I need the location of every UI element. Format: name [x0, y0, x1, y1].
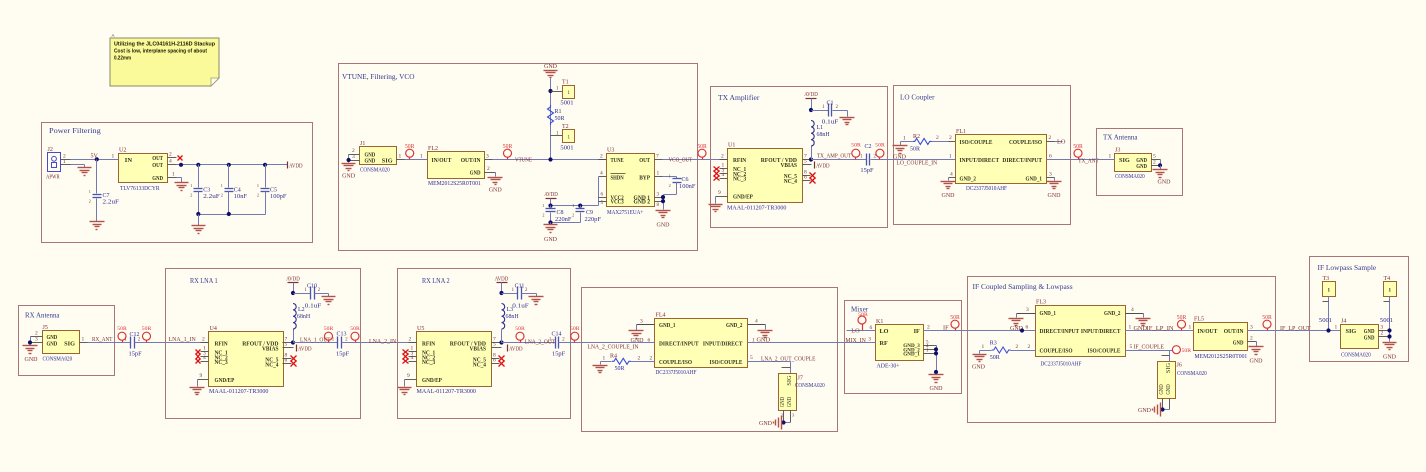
- svg-text:LO_COUPLE_IN: LO_COUPLE_IN: [896, 159, 937, 166]
- svg-text:LNA_2_IN: LNA_2_IN: [369, 338, 397, 345]
- svg-text:50R: 50R: [858, 312, 868, 318]
- svg-text:FL4: FL4: [656, 313, 666, 319]
- svg-text:GND: GND: [1159, 384, 1165, 395]
- svg-text:5001: 5001: [1380, 318, 1393, 324]
- svg-text:R2: R2: [913, 134, 920, 140]
- svg-text:CONSMA020: CONSMA020: [1341, 353, 1371, 359]
- svg-text:C8: C8: [557, 210, 564, 216]
- svg-text:50R: 50R: [350, 326, 360, 332]
- svg-text:50R: 50R: [1177, 315, 1187, 321]
- svg-text:GND: GND: [942, 193, 956, 199]
- svg-text:CONSMA020: CONSMA020: [43, 357, 73, 363]
- svg-text:GND_1: GND_1: [1026, 175, 1043, 182]
- svg-text:U2: U2: [119, 148, 126, 154]
- svg-text:2: 2: [1250, 336, 1253, 342]
- svg-text:NC_4: NC_4: [784, 178, 797, 185]
- svg-text:APWR: APWR: [46, 175, 60, 181]
- svg-text:IF Coupled Sampling & Lowpass: IF Coupled Sampling & Lowpass: [973, 282, 1073, 291]
- svg-text:C4: C4: [234, 188, 241, 194]
- svg-text:GND: GND: [972, 364, 986, 370]
- svg-text:RFIN: RFIN: [733, 157, 747, 164]
- svg-text:3: 3: [1049, 172, 1052, 178]
- svg-text:U4: U4: [210, 326, 217, 332]
- svg-text:MEM2012S25R0T001: MEM2012S25R0T001: [428, 181, 481, 187]
- svg-text:MAX2751EUA+: MAX2751EUA+: [607, 210, 644, 216]
- svg-text:GND: GND: [544, 64, 558, 70]
- svg-text:50R: 50R: [324, 326, 334, 332]
- svg-text:GND_2: GND_2: [1104, 310, 1121, 317]
- svg-text:RX Antenna: RX Antenna: [25, 311, 60, 320]
- svg-text:1: 1: [1109, 154, 1112, 160]
- svg-text:TLV76133DCYR: TLV76133DCYR: [120, 185, 160, 192]
- svg-text:GND: GND: [342, 174, 356, 180]
- svg-text:GND: GND: [1364, 334, 1375, 341]
- svg-text:3: 3: [1026, 307, 1029, 313]
- svg-text:VTUNE, Filtering, VCO: VTUNE, Filtering, VCO: [342, 72, 415, 81]
- svg-text:3: 3: [868, 336, 871, 342]
- svg-text:CONSMA020: CONSMA020: [1177, 371, 1207, 377]
- svg-text:CONSMA020: CONSMA020: [360, 168, 390, 174]
- svg-text:2: 2: [1153, 159, 1156, 165]
- svg-text:FL5: FL5: [1194, 317, 1204, 323]
- svg-text:50R: 50R: [142, 326, 152, 332]
- svg-text:L2: L2: [298, 307, 305, 313]
- svg-text:INPUT/DIRECT: INPUT/DIRECT: [703, 340, 743, 347]
- svg-text:LO: LO: [851, 327, 860, 334]
- svg-text:MAAL-011207-TR3000: MAAL-011207-TR3000: [209, 389, 268, 395]
- svg-text:1: 1: [190, 183, 192, 188]
- svg-text:GND: GND: [1136, 163, 1147, 170]
- svg-text:AVDD: AVDD: [544, 191, 558, 198]
- svg-text:4: 4: [203, 355, 206, 361]
- svg-text:50R: 50R: [1073, 144, 1083, 150]
- svg-text:DIRECT/INPUT: DIRECT/INPUT: [1040, 328, 1080, 335]
- svg-text:MAAL-011207-TR3000: MAAL-011207-TR3000: [727, 206, 786, 212]
- svg-text:INPUT/DIRECT: INPUT/DIRECT: [960, 157, 1000, 164]
- svg-text:J7: J7: [798, 376, 803, 382]
- svg-text:GND/EP: GND/EP: [215, 377, 235, 384]
- svg-text:IF_LP_OUT: IF_LP_OUT: [1280, 325, 1311, 332]
- svg-text:50R: 50R: [615, 366, 625, 372]
- svg-text:1: 1: [903, 135, 906, 141]
- svg-text:U5: U5: [417, 326, 424, 332]
- svg-text:ADE-30+: ADE-30+: [877, 364, 901, 370]
- svg-text:R4: R4: [610, 353, 617, 359]
- svg-text:LO: LO: [880, 328, 889, 335]
- svg-text:2: 2: [600, 154, 603, 160]
- svg-text:R1: R1: [555, 109, 562, 115]
- svg-text:NC_4: NC_4: [473, 361, 486, 368]
- svg-text:5001: 5001: [560, 101, 573, 107]
- svg-text:SIG: SIG: [382, 158, 393, 165]
- svg-text:2: 2: [202, 337, 205, 343]
- svg-text:L1: L1: [817, 125, 824, 131]
- svg-text:5: 5: [750, 355, 753, 361]
- svg-text:50R: 50R: [570, 326, 580, 332]
- svg-text:10nF: 10nF: [234, 194, 248, 200]
- svg-text:IN: IN: [125, 157, 133, 164]
- svg-text:15pF: 15pF: [552, 352, 566, 358]
- svg-text:1: 1: [257, 183, 259, 188]
- svg-text:1: 1: [420, 154, 423, 160]
- svg-text:INPUT/DIRECT: INPUT/DIRECT: [1081, 328, 1121, 335]
- svg-text:6: 6: [1026, 325, 1029, 331]
- svg-text:50R: 50R: [117, 326, 127, 332]
- svg-text:4: 4: [950, 172, 953, 178]
- svg-text:2: 2: [169, 152, 172, 158]
- svg-text:3: 3: [35, 337, 38, 343]
- svg-text:3: 3: [1250, 325, 1253, 331]
- svg-text:68nH: 68nH: [506, 314, 520, 320]
- svg-text:AVDD: AVDD: [495, 276, 509, 283]
- svg-text:LO: LO: [1057, 139, 1066, 146]
- svg-text:RX LNA 1: RX LNA 1: [190, 276, 218, 285]
- svg-text:1: 1: [657, 171, 660, 177]
- svg-text:100pF: 100pF: [270, 194, 287, 200]
- svg-text:3: 3: [352, 154, 355, 160]
- svg-text:IF Lowpass Sample: IF Lowpass Sample: [1318, 263, 1377, 272]
- svg-text:9: 9: [718, 190, 721, 196]
- svg-text:1: 1: [1388, 288, 1391, 294]
- svg-text:1: 1: [399, 154, 402, 160]
- svg-text:COUPLE/ISO: COUPLE/ISO: [1040, 348, 1073, 355]
- svg-text:2: 2: [721, 154, 724, 160]
- svg-text:GND: GND: [1048, 193, 1062, 199]
- svg-text:GND: GND: [470, 169, 481, 176]
- svg-text:SIG: SIG: [787, 375, 793, 386]
- svg-text:6: 6: [285, 358, 288, 364]
- svg-text:C6: C6: [682, 177, 689, 183]
- svg-text:1: 1: [82, 337, 85, 343]
- svg-text:MAAL-011207-TR3000: MAAL-011207-TR3000: [417, 389, 476, 395]
- svg-text:0.1uF: 0.1uF: [822, 120, 839, 126]
- svg-text:5: 5: [804, 159, 807, 165]
- svg-text:LNA_1_IN: LNA_1_IN: [169, 336, 197, 343]
- svg-text:GND: GND: [1134, 325, 1148, 332]
- svg-text:2: 2: [89, 198, 91, 203]
- svg-text:IF: IF: [943, 324, 949, 331]
- svg-text:SIG: SIG: [1166, 362, 1172, 373]
- svg-text:50R: 50R: [950, 315, 960, 321]
- svg-text:U3: U3: [607, 148, 614, 154]
- svg-text:FL3: FL3: [1036, 300, 1046, 306]
- svg-text:GND: GND: [47, 340, 58, 347]
- svg-text:2: 2: [1016, 344, 1019, 350]
- svg-text:J2: J2: [48, 147, 53, 153]
- svg-text:C5: C5: [270, 188, 277, 194]
- svg-text:NC_3: NC_3: [733, 176, 746, 183]
- svg-text:DC2337J5010AHF: DC2337J5010AHF: [1041, 362, 1083, 368]
- svg-text:VCO_OUT: VCO_OUT: [669, 157, 693, 164]
- svg-text:1: 1: [982, 344, 985, 350]
- svg-text:6: 6: [493, 358, 496, 364]
- svg-text:T2: T2: [562, 124, 569, 130]
- svg-text:GND: GND: [1383, 355, 1397, 361]
- svg-text:GND: GND: [757, 337, 771, 344]
- svg-text:5001: 5001: [1319, 318, 1332, 324]
- svg-text:NC_3: NC_3: [422, 359, 435, 366]
- svg-text:GND: GND: [1233, 340, 1244, 347]
- svg-text:COUPLE/ISO: COUPLE/ISO: [1009, 139, 1042, 146]
- svg-text:IN/OUT: IN/OUT: [1198, 328, 1219, 335]
- svg-text:100nF: 100nF: [679, 184, 696, 190]
- svg-text:GND: GND: [1158, 180, 1172, 186]
- svg-text:J6: J6: [1177, 363, 1182, 369]
- svg-text:J5: J5: [43, 325, 48, 331]
- svg-text:1: 1: [1189, 325, 1192, 331]
- svg-text:RFIN: RFIN: [422, 340, 436, 347]
- svg-text:R3: R3: [990, 340, 997, 346]
- svg-text:50R: 50R: [697, 144, 707, 150]
- svg-text:5001: 5001: [560, 146, 573, 152]
- svg-text:15pF: 15pF: [860, 168, 874, 174]
- svg-text:TX_ANT: TX_ANT: [1078, 157, 1099, 164]
- svg-text:C10: C10: [307, 284, 317, 290]
- svg-text:GND: GND: [1166, 384, 1172, 395]
- svg-text:TUNE: TUNE: [611, 157, 624, 164]
- svg-text:MIX_IN: MIX_IN: [845, 337, 866, 344]
- svg-text:DC2337J5010AHF: DC2337J5010AHF: [656, 370, 698, 376]
- svg-text:DIRECT/INPUT: DIRECT/INPUT: [659, 340, 699, 347]
- svg-text:GND: GND: [930, 386, 944, 392]
- svg-text:ISO/COUPLE: ISO/COUPLE: [710, 359, 743, 366]
- svg-text:6: 6: [648, 338, 651, 344]
- svg-text:J4: J4: [1341, 319, 1346, 325]
- svg-text:AVDD: AVDD: [816, 162, 830, 169]
- svg-text:Cost is low, interplane spacin: Cost is low, interplane spacing of about: [114, 49, 207, 55]
- svg-text:C1: C1: [826, 101, 833, 107]
- svg-text:Power Filtering: Power Filtering: [49, 126, 101, 135]
- svg-text:50R: 50R: [1182, 348, 1192, 354]
- svg-text:50R: 50R: [1262, 315, 1272, 321]
- svg-text:2: 2: [487, 166, 490, 172]
- svg-text:IF: IF: [914, 328, 920, 335]
- svg-text:4: 4: [1131, 307, 1134, 313]
- svg-text:2: 2: [650, 355, 653, 361]
- svg-text:C2: C2: [864, 144, 871, 150]
- svg-text:0.22mm: 0.22mm: [114, 56, 131, 62]
- svg-text:VBIAS: VBIAS: [781, 162, 798, 169]
- svg-text:T1: T1: [562, 80, 569, 86]
- svg-text:C14: C14: [552, 332, 562, 338]
- svg-text:VBIAS: VBIAS: [262, 346, 279, 353]
- svg-text:68nH: 68nH: [297, 314, 311, 320]
- svg-text:GND: GND: [152, 175, 163, 182]
- svg-text:OUT: OUT: [152, 155, 163, 162]
- svg-text:LNA_2_OUT_COUPLE: LNA_2_OUT_COUPLE: [761, 356, 816, 363]
- svg-text:50R: 50R: [405, 144, 415, 150]
- svg-text:1: 1: [752, 338, 755, 344]
- svg-text:SIG: SIG: [1119, 157, 1130, 164]
- svg-text:2: 2: [409, 337, 412, 343]
- svg-text:MEM2012S25R0T001: MEM2012S25R0T001: [1195, 354, 1248, 360]
- svg-text:FL1: FL1: [956, 129, 966, 135]
- svg-text:1: 1: [572, 203, 574, 208]
- svg-text:2: 2: [936, 135, 939, 141]
- svg-text:C9: C9: [586, 210, 593, 216]
- svg-text:2: 2: [638, 355, 641, 361]
- svg-text:4: 4: [755, 318, 758, 324]
- svg-text:GND_1: GND_1: [1040, 310, 1057, 317]
- svg-text:GND: GND: [1138, 408, 1152, 414]
- svg-text:2.2uF: 2.2uF: [103, 200, 120, 206]
- svg-text:IF_LP_IN: IF_LP_IN: [1147, 325, 1175, 332]
- svg-text:4: 4: [600, 171, 603, 177]
- svg-text:2: 2: [190, 192, 192, 197]
- svg-text:VBIAS: VBIAS: [470, 346, 487, 353]
- svg-text:3: 3: [486, 154, 489, 160]
- svg-text:9: 9: [200, 373, 203, 379]
- svg-text:6: 6: [1049, 154, 1052, 160]
- svg-text:A: A: [112, 33, 115, 38]
- svg-text:LO Coupler: LO Coupler: [900, 93, 935, 102]
- svg-text:GND: GND: [657, 223, 671, 229]
- svg-text:220nF: 220nF: [555, 217, 572, 223]
- svg-text:TX Amplifier: TX Amplifier: [718, 93, 760, 102]
- svg-text:GND 2: GND 2: [634, 200, 651, 206]
- svg-text:1: 1: [949, 154, 952, 160]
- svg-text:GND: GND: [365, 158, 376, 165]
- svg-text:ISO/COUPLE: ISO/COUPLE: [960, 139, 993, 146]
- svg-text:TX_AMP_OUT: TX_AMP_OUT: [817, 152, 851, 159]
- svg-text:GND: GND: [1250, 359, 1264, 365]
- svg-text:2.2uF: 2.2uF: [203, 194, 220, 200]
- svg-text:T3: T3: [1323, 276, 1330, 282]
- svg-text:2: 2: [257, 192, 259, 197]
- svg-text:VCC3: VCC3: [611, 200, 624, 206]
- svg-text:SIG: SIG: [64, 340, 75, 347]
- svg-text:OUT/IN: OUT/IN: [461, 157, 481, 164]
- svg-text:1: 1: [1129, 325, 1132, 331]
- svg-text:C3: C3: [203, 188, 210, 194]
- svg-text:3: 3: [640, 318, 643, 324]
- svg-text:T4: T4: [1384, 276, 1391, 282]
- svg-text:220pF: 220pF: [585, 217, 602, 223]
- svg-text:C13: C13: [337, 332, 347, 338]
- svg-text:K1: K1: [876, 319, 883, 325]
- svg-text:RX LNA 2: RX LNA 2: [422, 276, 450, 285]
- svg-text:RFIN: RFIN: [215, 340, 229, 347]
- svg-text:68nH: 68nH: [817, 132, 831, 138]
- svg-text:GND: GND: [759, 421, 773, 427]
- svg-text:50R: 50R: [851, 143, 861, 149]
- svg-text:4: 4: [722, 172, 725, 178]
- svg-text:5: 5: [1130, 344, 1133, 350]
- svg-text:GND/EP: GND/EP: [733, 194, 753, 201]
- svg-text:IF_COUPLE: IF_COUPLE: [1134, 343, 1165, 350]
- svg-text:1: 1: [603, 355, 606, 361]
- svg-text:AVDD: AVDD: [286, 276, 300, 283]
- svg-text:GND_2: GND_2: [960, 175, 977, 182]
- svg-text:GND/EP: GND/EP: [422, 377, 442, 384]
- svg-text:0.1uF: 0.1uF: [512, 304, 529, 310]
- svg-text:C11: C11: [515, 284, 525, 290]
- svg-text:1: 1: [112, 154, 115, 160]
- svg-text:2: 2: [927, 325, 930, 331]
- svg-text:OUT/IN: OUT/IN: [1224, 328, 1244, 335]
- svg-text:50R: 50R: [875, 143, 885, 149]
- svg-text:AVDD: AVDD: [298, 345, 312, 352]
- svg-text:FL2: FL2: [428, 146, 438, 152]
- svg-text:2: 2: [221, 192, 223, 197]
- svg-text:COUPLE/ISO: COUPLE/ISO: [659, 359, 692, 366]
- svg-text:GND_1: GND_1: [659, 322, 676, 329]
- svg-text:OUT: OUT: [152, 162, 163, 169]
- svg-text:6: 6: [870, 325, 873, 331]
- svg-text:50R: 50R: [515, 326, 525, 332]
- svg-text:NC_3: NC_3: [215, 359, 228, 366]
- svg-text:CONSMA020: CONSMA020: [795, 383, 825, 389]
- svg-text:SIG: SIG: [1346, 328, 1357, 335]
- svg-text:1: 1: [1335, 325, 1338, 331]
- svg-text:6: 6: [804, 175, 807, 181]
- svg-text:Utilizing the JLC04161H-2116D: Utilizing the JLC04161H-2116D Stackup: [114, 42, 216, 48]
- svg-text:VTUNE: VTUNE: [515, 157, 532, 164]
- svg-text:RX_ANT: RX_ANT: [92, 336, 113, 343]
- svg-text:15pF: 15pF: [336, 351, 350, 357]
- svg-text:C12: C12: [130, 332, 140, 338]
- svg-text:1: 1: [172, 172, 175, 178]
- svg-text:2: 2: [949, 135, 952, 141]
- svg-text:2: 2: [572, 213, 574, 218]
- svg-text:7: 7: [656, 154, 659, 160]
- svg-text:LNA_2_COUPLE_IN: LNA_2_COUPLE_IN: [588, 343, 639, 350]
- svg-text:L3: L3: [507, 307, 514, 313]
- svg-text:GND_1: GND_1: [903, 352, 920, 358]
- svg-text:1: 1: [1327, 288, 1330, 294]
- svg-text:DC2337J5010AHF: DC2337J5010AHF: [966, 186, 1008, 192]
- svg-text:50R: 50R: [555, 116, 565, 122]
- svg-text:4: 4: [411, 355, 414, 361]
- svg-text:2: 2: [1028, 344, 1031, 350]
- svg-text:15pF: 15pF: [129, 351, 143, 357]
- svg-text:GND: GND: [544, 237, 558, 243]
- svg-text:2: 2: [1049, 135, 1052, 141]
- svg-text:GND: GND: [631, 338, 645, 344]
- svg-text:50R: 50R: [990, 355, 1000, 361]
- svg-text:C7: C7: [103, 193, 110, 199]
- svg-text:1: 1: [669, 173, 671, 178]
- svg-text:2: 2: [1381, 331, 1384, 337]
- svg-text:J1: J1: [360, 141, 365, 147]
- svg-text:4: 4: [169, 159, 172, 165]
- svg-text:GND: GND: [787, 396, 793, 407]
- svg-text:AVDD: AVDD: [509, 345, 523, 352]
- svg-text:GND: GND: [25, 357, 39, 363]
- svg-text:1: 1: [221, 183, 223, 188]
- svg-text:BYP: BYP: [639, 175, 650, 182]
- svg-text:NC_4: NC_4: [265, 361, 278, 368]
- svg-text:U1: U1: [728, 143, 735, 149]
- svg-text:OUT: OUT: [639, 157, 650, 164]
- svg-text:5: 5: [493, 342, 496, 348]
- svg-text:0.1uF: 0.1uF: [305, 304, 322, 310]
- svg-text:GND_2: GND_2: [726, 322, 743, 329]
- svg-text:J3: J3: [1115, 148, 1120, 154]
- svg-text:GND: GND: [489, 188, 503, 194]
- svg-text:2: 2: [669, 183, 671, 188]
- svg-text:2: 2: [542, 213, 544, 218]
- svg-text:CONSMA020: CONSMA020: [1115, 174, 1145, 180]
- svg-text:GND: GND: [780, 396, 786, 407]
- svg-text:50R: 50R: [503, 144, 513, 150]
- svg-text:9: 9: [407, 373, 410, 379]
- svg-text:DIRECT/INPUT: DIRECT/INPUT: [1002, 157, 1042, 164]
- svg-text:50R: 50R: [910, 146, 920, 152]
- svg-text:1: 1: [542, 203, 544, 208]
- svg-text:SHDN: SHDN: [611, 175, 625, 182]
- svg-text:AVDD: AVDD: [289, 162, 303, 169]
